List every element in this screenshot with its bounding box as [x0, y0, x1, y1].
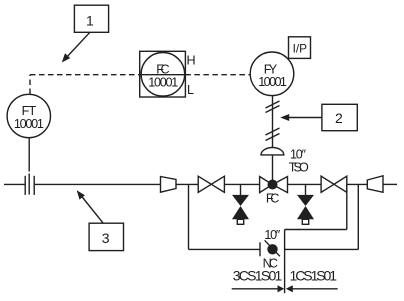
- wire main process line V1 to control valve: [224, 183, 259, 185]
- wire main process line right end: [383, 183, 397, 185]
- callout box 1: [74, 5, 108, 32]
- wire main process line reducer to gate valve V1: [176, 183, 198, 185]
- wire signal FY to control valve actuator: [272, 96, 274, 148]
- instrument FY 10001 bubble: [250, 52, 294, 96]
- svg-text:3CS1S01: 3CS1S01: [233, 267, 283, 283]
- reducer: [161, 177, 177, 193]
- callout arrow 2: [280, 114, 322, 121]
- spec break arrow right: [286, 285, 338, 292]
- svg-text:FT: FT: [22, 104, 37, 118]
- svg-text:10001: 10001: [14, 117, 44, 131]
- svg-text:3: 3: [102, 230, 110, 246]
- svg-text:FC: FC: [266, 192, 279, 206]
- wire instrument tap from FT to orifice: [28, 138, 30, 172]
- NC valve ball: [268, 245, 277, 254]
- svg-text:10001: 10001: [258, 75, 287, 89]
- control valve FV 10001 body: [260, 177, 288, 193]
- svg-text:TSO: TSO: [289, 161, 309, 175]
- svg-text:L: L: [187, 83, 194, 97]
- instrument FC 10001 shared display square: [140, 51, 186, 97]
- control valve actuator diaphragm dome: [261, 148, 284, 155]
- drain valve D1 cap: [237, 219, 243, 224]
- orifice middle tap segment: [28, 174, 30, 195]
- callout box 3: [89, 223, 123, 250]
- bypass wire bottom horizontal right: [285, 248, 359, 250]
- drain valve D2 cap: [302, 219, 308, 224]
- svg-text:10″: 10″: [264, 228, 280, 242]
- svg-text:10001: 10001: [148, 75, 178, 89]
- expander: [367, 176, 383, 193]
- svg-text:I/P: I/P: [293, 41, 308, 55]
- I/P converter box: [289, 37, 311, 59]
- signal break slashes pair 2: [266, 128, 280, 141]
- wire main process line orifice to reducer: [34, 183, 160, 185]
- drain valve D2 closed valve: [297, 195, 314, 219]
- wire main process line control valve to gate valve V2: [288, 183, 322, 185]
- gate valve V1: [198, 176, 224, 192]
- orifice plate flanges FE: [25, 176, 34, 195]
- drain valve D1 branch wire: [240, 184, 242, 195]
- wire main process line segment left of orifice: [4, 183, 25, 185]
- svg-text:H: H: [186, 54, 195, 68]
- equalizing wire horizontal: [285, 229, 347, 231]
- callout arrow 3: [77, 190, 104, 223]
- wire main process line V2 to expander: [347, 183, 368, 185]
- svg-text:1: 1: [86, 12, 94, 28]
- svg-text:2: 2: [335, 110, 343, 126]
- callout arrow 1: [62, 32, 90, 62]
- bypass wire right vertical: [357, 184, 359, 249]
- bypass wire left vertical: [188, 184, 190, 249]
- wire FC bubble horizontal diameter: [140, 74, 186, 76]
- wire actuator stem: [272, 155, 274, 185]
- equalizing wire vertical at valve V2: [346, 184, 348, 229]
- instrument FT 10001 bubble: [7, 94, 50, 137]
- NC valve left seat: [259, 242, 261, 256]
- spec break arrow left: [232, 285, 285, 292]
- svg-text:FC: FC: [156, 63, 169, 77]
- instrument FC 10001 bubble: [141, 53, 185, 97]
- signal line dashed FT to FC to FY: [30, 75, 250, 94]
- drain valve D2 branch wire: [305, 184, 307, 195]
- bypass wire bottom horizontal left: [189, 248, 261, 250]
- NC valve closed diagonal: [265, 240, 280, 256]
- svg-text:10″: 10″: [290, 148, 307, 162]
- svg-text:1CS1S01: 1CS1S01: [290, 267, 338, 283]
- gate valve V2: [321, 176, 347, 192]
- spec break vertical line: [284, 230, 286, 294]
- signal break slashes pair 1: [266, 101, 280, 113]
- drain valve D1 closed valve: [232, 195, 249, 219]
- callout box 2: [322, 104, 357, 130]
